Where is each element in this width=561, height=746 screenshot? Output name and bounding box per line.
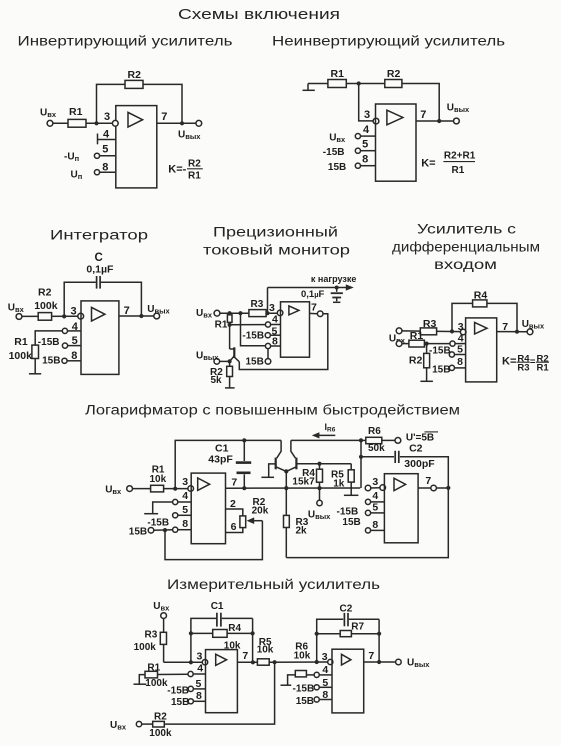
svg-text:токовый монитор: токовый монитор xyxy=(203,243,350,258)
svg-text:0,1µF: 0,1µF xyxy=(86,263,114,275)
wire to pin 4 xyxy=(230,324,266,326)
wire pin 5 xyxy=(178,514,191,516)
svg-text:C1: C1 xyxy=(211,601,224,612)
pin 5 circle xyxy=(449,352,454,357)
svg-text:-15В: -15В xyxy=(429,346,451,357)
op-amp U1 xyxy=(281,302,310,357)
pin 4 circle xyxy=(355,134,360,139)
pin 5 circle xyxy=(188,686,193,691)
node input junction xyxy=(62,314,66,318)
svg-text:4: 4 xyxy=(272,314,278,326)
wire feedback riser xyxy=(175,440,281,488)
pin 5 circle xyxy=(94,153,99,158)
ground xyxy=(29,373,41,375)
pin 3 circle xyxy=(277,310,283,316)
wire feedback xyxy=(452,303,517,331)
svg-text:-15В: -15В xyxy=(242,330,264,341)
svg-text:4: 4 xyxy=(182,490,188,502)
terminal Uвх xyxy=(16,314,22,320)
svg-text:100k: 100k xyxy=(149,728,172,739)
wire pin 5 xyxy=(361,150,376,152)
svg-text:7: 7 xyxy=(420,109,426,121)
pin 8 circle xyxy=(355,163,360,168)
svg-text:5: 5 xyxy=(196,678,202,690)
node feedback left junction xyxy=(450,329,454,333)
wire base line xyxy=(296,463,351,465)
op-amp U1 xyxy=(206,650,238,713)
node C1 top junction xyxy=(242,438,246,442)
svg-text:3: 3 xyxy=(364,109,370,121)
svg-text:2: 2 xyxy=(230,498,236,510)
op-amp U2 xyxy=(384,474,418,543)
svg-text:Uвх: Uвх xyxy=(40,108,57,120)
terminal 15В xyxy=(265,359,271,365)
resistor R5 xyxy=(348,464,354,495)
node emitters junction xyxy=(284,469,288,473)
svg-text:Uвых: Uвых xyxy=(447,102,470,114)
resistor R6 xyxy=(361,437,395,443)
node emitter line crossing xyxy=(284,486,288,490)
resistor R2 xyxy=(424,344,430,382)
svg-text:7: 7 xyxy=(242,650,248,662)
svg-text:K=: K= xyxy=(502,355,516,367)
svg-text:C2: C2 xyxy=(409,443,423,455)
terminal U'=5В xyxy=(395,438,401,444)
terminal Uвых xyxy=(196,120,202,126)
svg-text:1k: 1k xyxy=(333,479,345,490)
svg-text:K=-: K=- xyxy=(168,164,186,176)
svg-text:5: 5 xyxy=(457,344,463,356)
pin 8 circle xyxy=(173,527,178,532)
svg-text:8: 8 xyxy=(71,350,77,362)
pin 3 circle xyxy=(460,329,466,335)
svg-text:Uвых: Uвых xyxy=(308,510,331,522)
svg-text:4: 4 xyxy=(103,129,110,141)
terminal Uвых xyxy=(154,313,160,319)
pin 7 circle op2 xyxy=(431,485,437,491)
wire R2 to output xyxy=(402,84,439,122)
svg-text:15В: 15В xyxy=(42,356,60,367)
formula K=-R2/R1 xyxy=(168,158,203,181)
svg-text:2k: 2k xyxy=(296,525,308,536)
svg-text:10k: 10k xyxy=(150,474,167,485)
node R1 top junction xyxy=(228,311,232,315)
pin 7 circle xyxy=(317,311,323,317)
svg-text:4: 4 xyxy=(72,321,79,333)
svg-text:R4: R4 xyxy=(228,623,241,634)
wire pin 8 to 15В terminal xyxy=(267,349,269,359)
node op2 pin3 junction xyxy=(315,660,319,664)
wire load line xyxy=(268,287,348,289)
svg-text:8: 8 xyxy=(457,356,463,368)
resistor R1 xyxy=(328,80,346,88)
pin 6 stub xyxy=(226,528,243,533)
pin 8 circle xyxy=(62,358,67,363)
svg-text:10k: 10k xyxy=(294,651,311,662)
wire op2 input xyxy=(371,487,380,489)
svg-text:-15В: -15В xyxy=(167,686,189,697)
svg-text:3: 3 xyxy=(182,476,188,488)
svg-text:15В: 15В xyxy=(246,357,264,368)
node pin 3 junction xyxy=(265,311,269,315)
resistor R4 xyxy=(317,464,323,501)
svg-text:10k: 10k xyxy=(257,645,274,656)
wire pin 8 xyxy=(100,171,116,173)
wire output xyxy=(497,331,527,333)
resistor R3 xyxy=(420,328,436,335)
resistor R4 xyxy=(473,300,487,307)
label U'=5В xyxy=(406,432,438,444)
resistor R5 xyxy=(257,659,269,665)
resistor R2 xyxy=(385,80,402,88)
capacitor C xyxy=(97,276,101,289)
wire op2 output xyxy=(364,661,396,663)
wire output xyxy=(119,315,154,317)
resistor op2 pin4 xyxy=(295,671,306,677)
svg-text:дифференциальным: дифференциальным xyxy=(392,240,540,255)
svg-text:7: 7 xyxy=(124,305,130,317)
svg-text:R1: R1 xyxy=(69,106,83,118)
pin 8 circle op2 xyxy=(314,697,319,702)
node output junction xyxy=(446,486,450,490)
wire bottom return xyxy=(286,488,448,558)
resistor R2 xyxy=(38,313,51,321)
svg-text:0,1µF: 0,1µF xyxy=(301,289,325,300)
svg-text:4: 4 xyxy=(197,662,203,674)
wire pin 8 xyxy=(193,700,205,702)
svg-text:R1: R1 xyxy=(215,319,228,330)
svg-text:Измерительный усилитель: Измерительный усилитель xyxy=(167,577,380,592)
node R2 riser junction xyxy=(273,660,277,664)
svg-text:5: 5 xyxy=(322,677,328,689)
svg-text:4: 4 xyxy=(322,664,328,676)
svg-text:Инвертирующий усилитель: Инвертирующий усилитель xyxy=(18,34,233,49)
wire pin 4 xyxy=(178,501,191,503)
resistor R1 xyxy=(227,313,232,349)
wire pin 5 xyxy=(193,688,205,690)
wire pin 5 xyxy=(455,354,466,356)
svg-text:5: 5 xyxy=(182,504,188,516)
wire ground to R1 xyxy=(308,83,328,85)
capacitor C1 xyxy=(236,440,251,488)
wiper arrow xyxy=(247,517,263,524)
wire junction to pin 3 xyxy=(359,84,374,121)
transistor Q1 xyxy=(230,347,240,362)
node R7 right xyxy=(377,632,381,636)
svg-text:3: 3 xyxy=(104,111,110,123)
svg-text:Uвх: Uвх xyxy=(329,132,346,144)
wire feedback right xyxy=(101,282,141,316)
svg-text:R3: R3 xyxy=(423,318,437,330)
capacitor C1 xyxy=(217,613,253,627)
svg-text:8: 8 xyxy=(362,154,368,166)
pin 3 circle op2 xyxy=(380,485,386,491)
wire input xyxy=(133,488,189,490)
svg-text:8: 8 xyxy=(372,519,378,531)
svg-text:15В: 15В xyxy=(432,365,450,376)
wire R4 branch xyxy=(191,632,253,634)
svg-text:R2: R2 xyxy=(154,712,167,723)
node C1 bottom junction xyxy=(242,486,246,490)
wire pin 5 op2 xyxy=(319,686,332,688)
node C2 left junction xyxy=(359,455,363,459)
svg-text:Uвых: Uвых xyxy=(522,319,545,331)
pin 4 circle xyxy=(188,671,193,676)
svg-text:R1: R1 xyxy=(147,662,160,673)
wire output xyxy=(237,661,257,663)
node R6 junction xyxy=(359,438,363,442)
svg-text:4: 4 xyxy=(458,332,464,344)
wire Q1 base stub xyxy=(261,464,275,477)
transistor Q1 left xyxy=(276,440,286,471)
capacitor 0,1uF xyxy=(331,288,343,303)
wire pin 5 xyxy=(100,155,116,157)
pin 4 circle op2 xyxy=(365,499,370,504)
node feedback left bottom xyxy=(189,660,193,664)
wire pin 4 xyxy=(361,135,376,137)
pin 5 circle xyxy=(62,343,67,348)
svg-text:300pF: 300pF xyxy=(404,458,435,470)
ground xyxy=(225,387,235,389)
svg-text:43pF: 43pF xyxy=(208,453,233,465)
transistor Q2 right xyxy=(287,440,297,471)
svg-text:8: 8 xyxy=(196,690,202,702)
terminal Uвых xyxy=(317,500,322,505)
svg-text:50k: 50k xyxy=(368,443,385,454)
svg-text:5: 5 xyxy=(72,335,78,347)
op2 pin4 open stub xyxy=(281,675,296,685)
wire pin 4 to op-amp xyxy=(68,330,82,332)
svg-text:100k: 100k xyxy=(134,642,157,653)
terminal Uвх 1 xyxy=(396,328,402,334)
node emitter junction xyxy=(228,359,232,363)
op-amp U1 xyxy=(116,106,157,188)
svg-text:7: 7 xyxy=(311,301,317,313)
wire op1 output xyxy=(226,487,361,489)
svg-text:R7: R7 xyxy=(351,622,364,633)
node output junction xyxy=(180,121,184,125)
svg-text:4: 4 xyxy=(372,490,378,502)
wire input 1 xyxy=(402,330,460,333)
svg-text:Схемы включения: Схемы включения xyxy=(178,6,340,23)
resistor R4 xyxy=(213,630,227,638)
wire input xyxy=(220,312,277,314)
node R1 bottom junction xyxy=(228,323,232,327)
pin 5 circle op2 xyxy=(365,510,370,515)
wire emitter to R3 xyxy=(285,471,287,515)
wire pin 8 branch xyxy=(241,313,266,346)
svg-text:C2: C2 xyxy=(340,604,353,615)
arrowhead to load xyxy=(346,284,354,290)
resistor R7 xyxy=(340,631,351,637)
node pin 3 junction xyxy=(173,487,177,491)
pin 4 circle xyxy=(62,328,67,333)
svg-text:R3: R3 xyxy=(251,299,264,310)
svg-text:Uвх: Uвх xyxy=(105,485,122,497)
node output junction xyxy=(515,330,519,334)
node pin8 branch junction xyxy=(238,311,242,315)
wire pin 8 xyxy=(271,345,281,347)
pin 4 circle xyxy=(450,341,455,346)
pin 3 circle xyxy=(373,118,379,124)
terminal Uвх bottom xyxy=(136,721,141,726)
wire input 2 xyxy=(402,343,450,345)
wire R6 node down xyxy=(360,440,362,488)
resistor R1 xyxy=(145,671,188,678)
wire input xyxy=(53,122,113,124)
svg-text:R1: R1 xyxy=(331,68,345,80)
svg-text:8: 8 xyxy=(182,518,188,530)
svg-text:R1: R1 xyxy=(14,336,28,348)
svg-text:Uвх: Uвх xyxy=(110,720,127,732)
svg-text:8: 8 xyxy=(322,689,328,701)
svg-text:=: = xyxy=(530,356,536,367)
svg-text:100k: 100k xyxy=(34,300,58,312)
svg-text:Uвых: Uвых xyxy=(196,351,219,363)
ground R5 xyxy=(344,494,359,496)
svg-text:Uвых: Uвых xyxy=(178,130,201,142)
terminal Uвых xyxy=(396,659,402,665)
wire op2 pin 4 xyxy=(306,674,332,676)
svg-text:-15В: -15В xyxy=(293,683,315,694)
svg-text:5: 5 xyxy=(102,144,108,156)
resistor R2 xyxy=(227,361,233,387)
svg-text:7: 7 xyxy=(425,475,431,487)
svg-text:Uвх: Uвх xyxy=(196,308,213,320)
pin 3 circle op2 xyxy=(328,659,333,664)
svg-text:20k: 20k xyxy=(252,505,269,516)
svg-text:R6: R6 xyxy=(368,426,381,437)
node feedback junction xyxy=(357,81,361,85)
wire op2 output xyxy=(418,487,431,489)
svg-text:6: 6 xyxy=(231,521,237,533)
pin 3 circle xyxy=(112,120,118,126)
wire R2 to junction xyxy=(164,662,274,724)
wire R7 branch xyxy=(317,633,379,635)
svg-text:R2: R2 xyxy=(38,287,52,299)
svg-text:3: 3 xyxy=(458,321,464,333)
wire pin 4 xyxy=(193,673,205,675)
R1 open stub xyxy=(134,675,147,685)
resistor R3 xyxy=(160,619,166,663)
wire input xyxy=(22,315,78,317)
svg-text:входом: входом xyxy=(434,257,497,272)
op-amp U1 xyxy=(81,301,119,375)
wire R1 to ground xyxy=(34,359,36,374)
pin 3 circle xyxy=(78,313,84,319)
wire output xyxy=(416,120,454,122)
wire pin 8 xyxy=(178,529,191,531)
node 15В junction xyxy=(163,528,167,532)
op-amp U1 xyxy=(466,318,497,382)
svg-text:15В: 15В xyxy=(342,517,360,528)
terminal op2 input xyxy=(365,485,371,491)
op-amp U2 xyxy=(332,649,364,713)
pin 2 stub xyxy=(226,509,243,516)
pin 8 circle xyxy=(188,699,193,704)
formula K=R4/R3=R2/R1 xyxy=(502,353,549,373)
wire pin 4 xyxy=(271,324,281,326)
pin 8 circle xyxy=(449,365,454,370)
resistor R3 xyxy=(284,515,290,557)
formula K=(R2+R1)/R1 xyxy=(421,151,476,177)
terminal Uвых xyxy=(454,118,460,124)
svg-text:15k7: 15k7 xyxy=(292,476,315,487)
svg-text:к нагрузке: к нагрузке xyxy=(311,274,356,284)
node R4 left xyxy=(189,631,193,635)
ground xyxy=(420,380,433,382)
wire pin 8 xyxy=(67,360,81,362)
pin 4 circle xyxy=(265,322,270,327)
svg-text:7: 7 xyxy=(231,477,237,489)
svg-text:Логарифматор с повышенным быст: Логарифматор с повышенным быстродействие… xyxy=(85,403,460,418)
wire pin 8 op2 xyxy=(371,529,385,531)
wire load line to pin 3 node xyxy=(267,288,269,314)
svg-text:-15В: -15В xyxy=(337,506,359,517)
svg-text:3: 3 xyxy=(322,651,328,663)
terminal Uвх xyxy=(47,120,53,126)
svg-text:5: 5 xyxy=(372,502,378,514)
svg-text:Uвх: Uвх xyxy=(8,303,25,315)
potentiometer R2 xyxy=(240,516,246,528)
pin 8 circle xyxy=(265,343,270,348)
resistor R1 xyxy=(151,485,164,492)
node R2 junction xyxy=(425,342,429,346)
svg-text:3: 3 xyxy=(269,302,275,314)
svg-text:100k: 100k xyxy=(145,678,168,689)
svg-text:C: C xyxy=(95,252,103,264)
terminal 15В xyxy=(148,528,154,534)
svg-text:R3: R3 xyxy=(517,363,529,374)
pin 8 circle op2 xyxy=(365,528,370,533)
terminal Uвых xyxy=(214,359,220,365)
resistor R1 xyxy=(68,119,86,127)
arrow IR6 xyxy=(312,432,336,438)
wire pin 8 xyxy=(455,367,466,369)
wire pin 3 xyxy=(164,661,203,663)
pin 4 open stub xyxy=(144,502,172,514)
pin 4 circle op2 xyxy=(314,672,319,677)
svg-text:3: 3 xyxy=(197,651,203,663)
svg-text:15В: 15В xyxy=(171,697,189,708)
wire output to corner xyxy=(436,487,448,489)
svg-text:4: 4 xyxy=(363,124,370,136)
wire Uвых xyxy=(220,360,230,362)
capacitor C2 xyxy=(361,451,448,488)
svg-text:Uвых: Uвых xyxy=(147,304,170,316)
resistor R1 xyxy=(409,340,425,347)
svg-text:R1: R1 xyxy=(537,363,550,374)
node cap junction xyxy=(335,286,339,290)
svg-text:7: 7 xyxy=(161,111,167,123)
wire feedback left xyxy=(64,282,96,316)
node R4 bottom junction xyxy=(317,486,321,490)
pin 5 circle xyxy=(265,333,270,338)
wire R5 to op2 pin 3 xyxy=(269,661,328,663)
terminal Uвх xyxy=(127,486,133,492)
node output junction xyxy=(139,314,143,318)
svg-text:K=: K= xyxy=(421,158,435,170)
svg-text:15В: 15В xyxy=(296,696,314,707)
wire pin 8 op2 xyxy=(319,699,332,701)
svg-text:R2+R1: R2+R1 xyxy=(444,151,476,162)
svg-text:R2: R2 xyxy=(128,69,142,81)
wire pin 4 xyxy=(455,343,466,345)
node input junction xyxy=(94,121,98,125)
wire feedback risers xyxy=(191,618,253,662)
svg-text:Uвх: Uвх xyxy=(153,601,170,613)
pin 4 stub xyxy=(98,134,116,145)
